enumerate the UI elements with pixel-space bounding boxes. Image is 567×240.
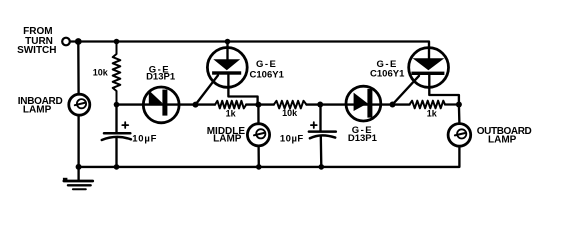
resistor R2 1k <box>215 101 246 109</box>
label D2 G-E D13P1 <box>348 125 378 144</box>
label FROM TURN SWITCH <box>17 26 56 56</box>
node bus SCR1 anode junction <box>225 39 231 45</box>
resistor R3 10k <box>274 101 307 109</box>
svg-text:LAMP: LAMP <box>488 135 517 146</box>
label U1 G-E C106Y1 <box>250 59 285 80</box>
node B junction (10k/C1/D1) <box>114 102 120 108</box>
node C1 bottom junction <box>114 164 120 170</box>
resistor R4 1k <box>410 101 446 109</box>
svg-text:LAMP: LAMP <box>213 133 242 144</box>
label MIDDLE LAMP <box>207 126 246 144</box>
wire inboard lamp to ground rail <box>77 115 79 167</box>
node ground junction <box>76 164 82 170</box>
capacitor C2 10uF <box>309 105 336 167</box>
label INBOARD LAMP <box>18 96 63 116</box>
svg-text:C106Y1: C106Y1 <box>370 69 405 80</box>
resistor R1 10k vertical <box>113 42 121 105</box>
node A junction (SCR1 cathode / R2 / middle lamp) <box>255 102 261 108</box>
node gate1 junction <box>193 102 199 108</box>
terminal FROM TURN SWITCH <box>62 38 70 46</box>
node D junction (SCR2 cathode / R4 / outboard lamp) <box>456 102 462 108</box>
diode D2 G-E D13P1 <box>346 86 381 121</box>
node middle lamp bottom junction <box>256 164 262 170</box>
wire SCR1 gate <box>196 75 219 104</box>
wire middle rail segment 2 <box>246 103 274 105</box>
svg-text:10k: 10k <box>282 108 298 118</box>
wire R4 to node D <box>445 103 459 105</box>
svg-text:10k: 10k <box>93 68 109 78</box>
label U2 G-E C106Y1 <box>370 59 405 80</box>
svg-text:C106Y1: C106Y1 <box>250 70 285 81</box>
label OUTBOARD LAMP <box>477 126 532 146</box>
wire middle rail segment 1 <box>117 103 216 105</box>
capacitor C1 10uF <box>102 105 131 167</box>
label D1 G-E D13P1 <box>146 64 176 82</box>
svg-text:LAMP: LAMP <box>23 105 52 116</box>
wire node D to outboard lamp <box>458 105 461 124</box>
node gate2 junction <box>390 102 396 108</box>
node bus 10k junction <box>114 39 120 45</box>
SCR U1 G-E C106Y1 <box>207 42 257 105</box>
wire middle rail segment 3 <box>307 103 410 105</box>
wire top bus <box>70 42 429 49</box>
wire SCR2 gate <box>393 76 420 105</box>
svg-text:D13P1: D13P1 <box>348 133 378 144</box>
ground <box>63 167 93 189</box>
node bus-left junction <box>75 38 82 45</box>
wire inboard lamp branch <box>77 42 80 95</box>
svg-text:10µF: 10µF <box>132 133 157 144</box>
svg-text:SWITCH: SWITCH <box>17 45 56 56</box>
lamp inboard <box>69 94 90 115</box>
svg-text:1k: 1k <box>226 109 237 119</box>
lamp outboard <box>448 124 471 147</box>
svg-text:G-E: G-E <box>256 59 277 70</box>
svg-text:1k: 1k <box>427 109 438 119</box>
node C2 bottom junction <box>319 164 325 170</box>
wire middle lamp to bottom rail <box>257 146 260 167</box>
svg-text:D13P1: D13P1 <box>146 72 176 83</box>
SCR U2 G-E C106Y1 <box>409 48 459 105</box>
wire bottom rail <box>79 146 460 167</box>
diode D1 G-E D13P1 <box>143 87 179 123</box>
svg-text:10µF: 10µF <box>280 134 304 145</box>
lamp middle <box>247 124 269 146</box>
wire node A to middle lamp <box>257 105 259 124</box>
node C junction (R3/C2/D2) <box>317 102 323 108</box>
